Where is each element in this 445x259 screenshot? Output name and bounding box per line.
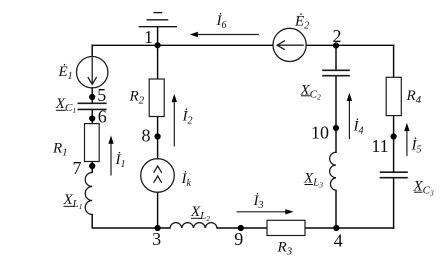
resistor R4 (386, 77, 401, 115)
node 9 (238, 225, 244, 231)
node 1 (155, 42, 161, 48)
svg-text:6: 6 (98, 107, 107, 127)
capacitor XC3 (380, 172, 408, 178)
wire XL3 to node 4 (335, 190, 337, 228)
label XC1 (55, 96, 76, 115)
svg-text:1: 1 (144, 27, 153, 47)
wire XC2 to node 10 to XL3 (335, 76, 337, 152)
resistor R3 (267, 220, 305, 235)
label XC3 (413, 179, 435, 198)
wire R4 to node 11 to XC3 (393, 116, 395, 172)
node 4 (333, 225, 339, 231)
source Ik (141, 159, 175, 193)
wire right corner to R4 (393, 45, 395, 77)
wire node 1 to R2 (157, 45, 159, 79)
capacitor XC1 (78, 103, 107, 109)
node 11 (391, 133, 397, 139)
wire XL1 to bottom left corner (92, 215, 170, 229)
svg-text:7: 7 (73, 158, 82, 178)
wire top right (E2 to right corner) (306, 44, 393, 46)
node 2 (333, 42, 339, 48)
inductor XL1 (85, 173, 92, 215)
inductor XL2 (170, 223, 217, 228)
node 7 (89, 163, 95, 169)
node 5 (89, 94, 95, 100)
current arrow I6 (190, 32, 259, 37)
svg-text:8: 8 (142, 126, 151, 146)
label XL1 (63, 192, 83, 211)
wire Ik to node 3 (157, 192, 159, 228)
current arrow I2 (172, 94, 177, 146)
wire node 2 to XC2 (335, 45, 337, 70)
wire E1 to node 5 (91, 88, 93, 103)
source E2 (273, 28, 306, 61)
svg-text:3: 3 (152, 229, 161, 249)
svg-text:11: 11 (371, 136, 388, 156)
wire top left (node1 area to E2) (92, 44, 273, 46)
ground stem (157, 27, 159, 45)
svg-text:2: 2 (333, 26, 342, 46)
wire left branch upper (91, 45, 93, 56)
wire R1 to node 7 to XL1 (91, 162, 93, 173)
current arrow I5 (404, 123, 409, 156)
wire R2 to node 8 to Ik (157, 117, 159, 159)
label XL2 (190, 204, 210, 223)
resistor R2 (149, 79, 164, 117)
ground (139, 13, 177, 27)
resistor R1 (85, 124, 100, 162)
label XC2 (300, 82, 322, 101)
node 8 (155, 133, 161, 139)
capacitor XC2 (322, 70, 350, 75)
svg-text:5: 5 (97, 85, 106, 105)
node 10 (333, 125, 339, 131)
source E1 (77, 56, 108, 87)
svg-text:9: 9 (234, 229, 243, 249)
current arrow I4 (347, 93, 352, 139)
wire XC3 to bottom right corner (393, 178, 395, 228)
wire XL2 to node 9 to R3 (217, 227, 267, 229)
wire R3 to node 4 to bottom right corner (305, 227, 394, 229)
inductor XL3 (330, 152, 336, 190)
svg-text:4: 4 (334, 231, 343, 251)
node 3 (155, 225, 161, 231)
current arrow I3 (237, 209, 294, 214)
wire XC1 to node 6 to R1 (91, 110, 93, 124)
current arrow I1 (108, 136, 113, 176)
label XL3 (303, 171, 323, 190)
svg-text:10: 10 (311, 123, 329, 143)
node 6 (89, 115, 95, 121)
